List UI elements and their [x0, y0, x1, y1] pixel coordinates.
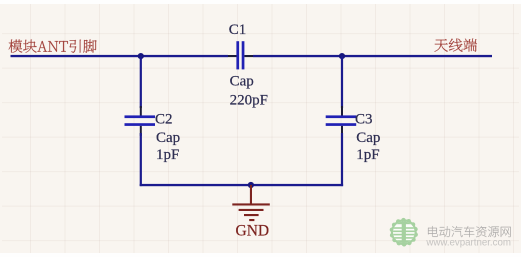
ground symbol: [232, 185, 269, 221]
capacitor C3: [326, 115, 357, 125]
label net name 模块ANT引脚 (module ANT pin), red: [9, 40, 97, 53]
svg-text:www.evpartner.com: www.evpartner.com: [425, 238, 511, 249]
svg-text:GND: GND: [236, 222, 270, 239]
label C3 comment "Cap": [356, 130, 380, 146]
wire: C3 lower vertical segment: [341, 126, 343, 186]
label C1 value "220pF": [230, 93, 268, 109]
wire: C2 lower vertical segment: [140, 126, 142, 186]
node B junction dot (C3 tap on top net): [339, 53, 345, 59]
label C3 value "1pF": [356, 147, 379, 163]
node A junction dot (C2 tap on top net): [138, 53, 144, 59]
label C2 value "1pF": [156, 147, 179, 163]
capacitor C2: [125, 115, 156, 125]
wire: C3 upper vertical segment: [341, 56, 343, 116]
wire: net from C1 right pin to antenna端: [253, 55, 492, 57]
svg-text:C1: C1: [229, 22, 247, 38]
label C2 comment "Cap": [156, 130, 180, 146]
svg-text:C2: C2: [155, 112, 173, 128]
label GND net name: [236, 222, 270, 239]
label C2 designator: [155, 112, 173, 128]
wire: net from module ANT pin to C1 left pin: [11, 55, 229, 57]
svg-text:C3: C3: [355, 112, 373, 128]
wire: bottom ground bus from C2 to C3: [140, 184, 343, 186]
svg-text:1pF: 1pF: [156, 147, 179, 163]
capacitor C1: [228, 41, 253, 69]
label C1 designator: [229, 22, 247, 38]
watermark site name 电动汽车资源网: [428, 226, 510, 237]
label C3 designator: [355, 112, 373, 128]
svg-text:Cap: Cap: [356, 130, 380, 146]
svg-text:Cap: Cap: [156, 130, 180, 146]
label C1 comment "Cap": [230, 74, 254, 90]
node GND junction dot on ground bus: [248, 182, 254, 188]
svg-text:220pF: 220pF: [230, 93, 268, 109]
svg-text:Cap: Cap: [230, 74, 254, 90]
watermark logo (green scalloped emblem): [390, 218, 418, 247]
wire: C2 upper vertical segment: [140, 56, 142, 116]
watermark url www.evpartner.com: [425, 238, 511, 249]
svg-text:1pF: 1pF: [356, 147, 379, 163]
label net name 天线端 (antenna terminal), red: [435, 39, 478, 52]
